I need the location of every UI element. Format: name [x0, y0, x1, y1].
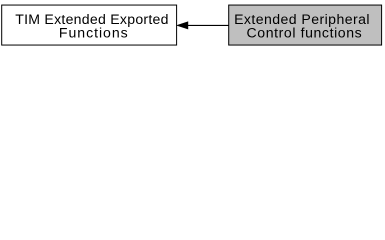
svg-text:Functions: Functions [59, 25, 128, 41]
svg-text:Control functions: Control functions [247, 25, 362, 41]
